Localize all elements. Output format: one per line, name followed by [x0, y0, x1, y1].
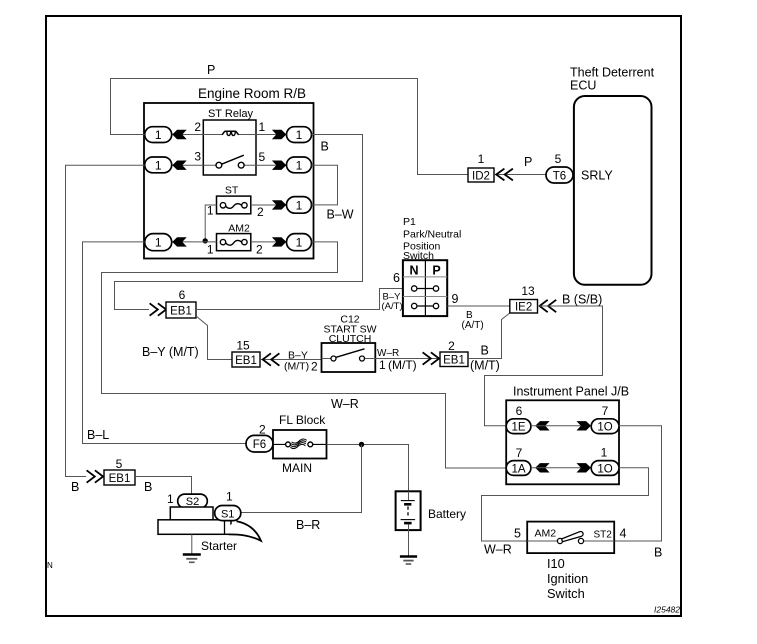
- ground symbol battery: [400, 555, 417, 557]
- svg-text:13: 13: [521, 284, 535, 298]
- connector oval 1 (row3 right): [287, 197, 312, 214]
- arrow into 1O bottom: [577, 463, 591, 472]
- wire relay to oval row2: [256, 164, 287, 166]
- svg-text:7: 7: [602, 404, 609, 418]
- svg-text:Park/Neutral: Park/Neutral: [403, 229, 461, 241]
- svg-text:N: N: [409, 264, 418, 278]
- svg-text:B–R: B–R: [296, 518, 320, 532]
- svg-text:7: 7: [516, 446, 523, 460]
- wire oval to relay row2: [172, 164, 204, 166]
- connector oval 1 (row4 right): [287, 234, 312, 251]
- wire ST fuse to oval: [251, 204, 287, 206]
- connector ID2: [468, 168, 494, 182]
- connector oval 1E: [506, 419, 531, 434]
- arrow into 1E: [535, 421, 549, 430]
- svg-text:5: 5: [116, 457, 123, 471]
- relay contact (ST Relay pins 3-5): [203, 164, 256, 166]
- svg-text:ID2: ID2: [472, 171, 490, 183]
- svg-text:ST2: ST2: [594, 530, 613, 541]
- connector oval 1A: [506, 461, 531, 476]
- svg-text:1A: 1A: [511, 463, 525, 475]
- svg-text:B: B: [321, 140, 329, 154]
- wire net P from engine room to ID2: [111, 79, 469, 175]
- svg-text:1: 1: [296, 198, 303, 212]
- svg-text:9: 9: [452, 292, 459, 306]
- svg-text:1: 1: [296, 158, 303, 172]
- svg-text:AM2: AM2: [228, 223, 250, 235]
- svg-text:EB1: EB1: [443, 355, 465, 367]
- svg-text:P: P: [207, 63, 215, 77]
- svg-text:I25482: I25482: [654, 605, 680, 615]
- svg-text:1: 1: [226, 490, 233, 504]
- svg-text:2: 2: [257, 205, 264, 219]
- svg-text:Ignition: Ignition: [547, 571, 588, 586]
- fuse ST box: [217, 196, 251, 214]
- wire EB1(15) to clutch switch: [260, 359, 322, 361]
- arrow into row2 right oval: [272, 161, 286, 170]
- starter body upper: [170, 507, 213, 520]
- svg-text:6: 6: [393, 271, 400, 285]
- arrows into EB1(15): [263, 353, 280, 365]
- svg-text:B–L: B–L: [87, 428, 109, 442]
- arrow into row2 left oval: [172, 161, 186, 170]
- svg-text:P1: P1: [403, 216, 416, 228]
- svg-text:Engine Room R/B: Engine Room R/B: [198, 86, 306, 101]
- svg-text:P: P: [524, 155, 532, 169]
- svg-text:FL Block: FL Block: [279, 413, 326, 427]
- ECU box Theft Deterrent ECU: [574, 96, 652, 285]
- switch P1 row dividers: [403, 277, 447, 297]
- svg-text:ST: ST: [225, 185, 239, 197]
- arrows into EB1(5): [87, 470, 104, 482]
- svg-text:S1: S1: [221, 508, 234, 520]
- svg-text:Instrument Panel J/B: Instrument Panel J/B: [513, 385, 629, 399]
- arrow into row4 right oval: [272, 237, 286, 246]
- svg-text:1O: 1O: [597, 463, 612, 475]
- connector EB1 (2): [440, 352, 468, 367]
- svg-text:IE2: IE2: [515, 302, 532, 314]
- svg-text:1O: 1O: [597, 422, 612, 434]
- junction dot AM2/ST feed: [203, 238, 208, 243]
- wire net B-L from AM2 row to FL block F6: [83, 242, 247, 444]
- svg-text:(M/T): (M/T): [388, 358, 417, 372]
- svg-text:S2: S2: [186, 496, 199, 508]
- svg-text:1: 1: [167, 492, 174, 506]
- switch I10 ignition box: [527, 522, 614, 554]
- connector oval T6 pin 5: [546, 167, 573, 183]
- svg-text:AM2: AM2: [535, 528, 557, 540]
- connector oval F6: [246, 435, 273, 452]
- svg-text:1: 1: [259, 120, 266, 134]
- wire EB1(6) branch down to EB1(15): [196, 316, 232, 360]
- arrows into ID2: [496, 169, 513, 181]
- svg-text:1: 1: [478, 152, 485, 166]
- connector oval 1 (row1 right): [287, 127, 312, 143]
- svg-text:5: 5: [259, 150, 266, 164]
- starter ground stem: [191, 534, 193, 554]
- connector EB1 (5): [104, 470, 135, 485]
- wire net B from 1O top to ignition ST2: [614, 426, 661, 541]
- relay coil (ST Relay pins 2-1): [203, 134, 256, 136]
- arrows into EB1 junction 6: [150, 303, 167, 315]
- arrow into row3 right oval: [272, 200, 286, 209]
- svg-text:Starter: Starter: [201, 539, 237, 553]
- junction dot B-R branch: [359, 442, 364, 447]
- wire net W-R from AM2 output around to 1A: [102, 242, 507, 468]
- wire P1 pin9 to IE2: [447, 305, 510, 307]
- svg-text:EB1: EB1: [109, 473, 131, 485]
- svg-text:4: 4: [620, 527, 627, 541]
- arrows into IE2: [540, 300, 557, 312]
- connector EB1 (6): [166, 302, 196, 318]
- arrow into row1 left oval: [172, 130, 186, 139]
- battery ground stem: [408, 524, 410, 556]
- svg-text:1: 1: [155, 236, 162, 250]
- wire FL block to battery: [327, 445, 409, 492]
- arrow into 1A: [535, 463, 549, 472]
- switch P1 box: [403, 260, 447, 316]
- connector oval 1O top: [591, 419, 619, 434]
- svg-text:1: 1: [601, 446, 608, 460]
- wire net W-R from 1O bottom to ignition AM2: [482, 468, 649, 541]
- switch C12 box: [322, 343, 376, 372]
- wire relay to oval row1: [256, 134, 287, 136]
- wire net B-W relay pin5 loop to ST fuse: [312, 165, 338, 205]
- svg-text:W–R: W–R: [331, 397, 359, 411]
- svg-text:T6: T6: [553, 170, 566, 182]
- svg-text:B: B: [144, 480, 152, 494]
- wire net B-R to starter S1: [241, 445, 362, 513]
- fuse AM2 element: [220, 239, 225, 244]
- svg-text:ECU: ECU: [570, 79, 596, 93]
- switch I10 contacts: [527, 540, 614, 542]
- svg-text:Theft Deterrent: Theft Deterrent: [570, 66, 655, 80]
- svg-text:B–W: B–W: [327, 208, 354, 222]
- arrow into row4 left oval: [172, 237, 186, 246]
- connector oval 1 (row2 left): [145, 157, 172, 173]
- svg-text:I10: I10: [547, 556, 565, 571]
- instrument panel J/B box: [506, 400, 619, 484]
- connector oval S1: [215, 506, 241, 521]
- starter S1 stem: [224, 521, 226, 535]
- connector oval 1 (row2 right): [287, 157, 312, 173]
- connector IE2: [510, 300, 538, 314]
- svg-text:2: 2: [448, 339, 455, 353]
- wire EB1(2) up to IE2: [468, 313, 510, 359]
- svg-text:2: 2: [256, 243, 263, 257]
- svg-text:(M/T): (M/T): [470, 359, 500, 373]
- wire between arrows row2: [531, 467, 591, 469]
- svg-text:1: 1: [296, 128, 303, 142]
- svg-text:3: 3: [194, 150, 201, 164]
- connector EB1 (15): [232, 352, 260, 367]
- wire net B from relay pin1 down to EB1(6): [115, 135, 363, 310]
- svg-text:B: B: [654, 546, 662, 560]
- svg-text:1: 1: [155, 158, 162, 172]
- svg-text:5: 5: [555, 152, 562, 166]
- arrow into 1O top: [577, 421, 591, 430]
- wire between arrows row1: [531, 425, 591, 427]
- wire oval to relay row1: [172, 134, 204, 136]
- svg-text:EB1: EB1: [170, 306, 192, 318]
- starter body lower: [158, 520, 231, 535]
- connector oval S2: [178, 494, 208, 508]
- svg-text:(A/T): (A/T): [462, 320, 484, 331]
- fuse AM2 box: [217, 234, 251, 251]
- arrows into EB1(2): [423, 352, 440, 364]
- svg-text:1: 1: [155, 128, 162, 142]
- wire net B (S/B) from IE2 to 1E: [485, 306, 603, 426]
- svg-text:F6: F6: [253, 439, 266, 451]
- svg-text:2: 2: [259, 423, 266, 437]
- svg-text:W–R: W–R: [484, 543, 512, 557]
- wire C12 to EB1(2): [375, 358, 439, 360]
- svg-text:P: P: [432, 264, 440, 278]
- wire row4 oval to AM2 fuse: [172, 241, 217, 243]
- svg-text:1: 1: [296, 236, 303, 250]
- svg-text:1: 1: [379, 358, 386, 372]
- svg-text:SRLY: SRLY: [581, 169, 613, 183]
- fuse FL block MAIN box: [273, 430, 327, 459]
- connector oval 1 (row1 left): [145, 127, 172, 143]
- svg-text:2: 2: [311, 360, 318, 374]
- svg-text:N: N: [47, 561, 53, 570]
- switch P1 contacts row 2: [417, 305, 433, 307]
- wire EB1(5) to starter S2: [135, 477, 192, 495]
- svg-text:B: B: [71, 480, 79, 494]
- svg-text:(A/T): (A/T): [382, 301, 403, 312]
- svg-text:(M/T): (M/T): [284, 361, 309, 373]
- svg-text:B: B: [481, 344, 489, 358]
- svg-text:1: 1: [207, 204, 214, 218]
- battery box: [396, 491, 421, 530]
- ground symbol starter: [183, 553, 201, 555]
- switch C12 contacts: [322, 358, 376, 360]
- connector oval 1O bottom: [591, 461, 619, 476]
- wire ST fuse pin1 down to AM2 feed: [205, 205, 216, 241]
- fuse ST element: [220, 203, 225, 208]
- battery cell symbol: [408, 491, 410, 500]
- wire EB1(6) to park/neutral switch pin 6: [196, 289, 403, 310]
- arrow into row1 right oval: [272, 130, 286, 139]
- svg-text:6: 6: [516, 404, 523, 418]
- connector oval 1 (row4 left): [145, 234, 172, 251]
- svg-text:EB1: EB1: [235, 355, 257, 367]
- svg-text:15: 15: [236, 339, 250, 353]
- outer border frame: [46, 16, 681, 616]
- svg-text:Battery: Battery: [428, 507, 466, 521]
- svg-text:1E: 1E: [511, 422, 525, 434]
- wire ID2 to T6: [494, 174, 546, 176]
- svg-text:ST Relay: ST Relay: [208, 108, 254, 120]
- svg-text:MAIN: MAIN: [282, 461, 312, 475]
- engine room R/B box: [144, 103, 314, 259]
- switch P1 contacts row 1: [417, 288, 433, 290]
- relay ST Relay box: [203, 120, 256, 175]
- svg-text:B–Y (M/T): B–Y (M/T): [142, 345, 199, 359]
- svg-text:Switch: Switch: [547, 586, 585, 601]
- svg-text:2: 2: [194, 120, 201, 134]
- svg-text:1: 1: [207, 243, 214, 257]
- svg-text:B (S/B): B (S/B): [562, 293, 602, 307]
- svg-text:6: 6: [179, 288, 186, 302]
- wire net B from relay pin3 down to EB1(5): [66, 165, 145, 476]
- starter pinion swoosh: [229, 521, 262, 541]
- wire AM2 fuse to oval: [251, 241, 287, 243]
- svg-text:5: 5: [514, 527, 521, 541]
- fuse FL element: [273, 443, 327, 445]
- switch P1 column divider: [424, 260, 426, 316]
